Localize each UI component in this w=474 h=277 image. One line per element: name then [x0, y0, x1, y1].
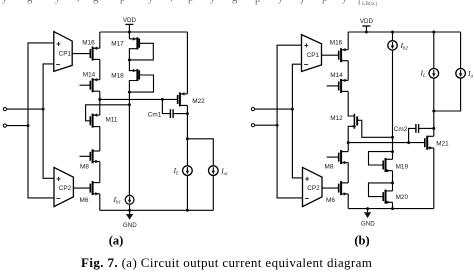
wire rail to M16b drain — [347, 32, 349, 50]
svg-text:p: p — [188, 0, 193, 4]
svg-text:p: p — [120, 0, 125, 4]
node M12 source on gate wire — [347, 141, 350, 144]
svg-text:Ib1: Ib1 — [113, 195, 121, 206]
svg-text:−: − — [304, 194, 309, 203]
node Cm2 tap — [407, 141, 410, 144]
transistor M16 — [82, 40, 100, 61]
ground symbol (b) — [361, 209, 375, 228]
node ground-M20 — [391, 207, 394, 210]
node output branch split — [186, 137, 189, 140]
transistor M14 (b) — [327, 72, 349, 93]
svg-text:M19: M19 — [396, 164, 409, 171]
transistor M20 diode-connected — [369, 183, 409, 204]
comparator CP1 — [54, 32, 72, 72]
svg-text:+: + — [56, 39, 61, 48]
transistor M17 diode-connected (mirrored) — [111, 37, 153, 60]
node rail-VDD junction — [128, 31, 131, 34]
wire input1 to CP1- and CP2+ — [43, 64, 54, 178]
VDD label (b) — [360, 18, 374, 25]
wire M6 source to ground rail — [99, 194, 101, 211]
svg-text:g: g — [27, 0, 33, 4]
wire node down to M11 drain — [99, 99, 101, 115]
svg-text:M21: M21 — [436, 141, 449, 148]
svg-text:CP1: CP1 — [307, 52, 320, 59]
wire rail to M16 drain — [99, 32, 101, 48]
wire long M21-gate wire — [348, 142, 425, 144]
transistor M19 diode-connected — [369, 152, 409, 173]
svg-text:+: + — [305, 174, 310, 183]
capacitor Cm1 — [148, 99, 188, 118]
wire M22 source down — [186, 105, 188, 165]
svg-text:y: y — [210, 0, 216, 4]
transistor M8 — [80, 149, 100, 170]
wire input2 to CP1+ and CP2- — [28, 43, 54, 198]
svg-text:p: p — [255, 0, 260, 5]
svg-text:M16: M16 — [330, 39, 343, 46]
transistor M16 (b) — [330, 39, 348, 62]
svg-text:y: y — [148, 0, 154, 4]
wire Ib2 column down to M19 stack — [392, 50, 394, 159]
node input1 junction — [42, 108, 45, 111]
transistor M12 — [330, 114, 392, 143]
svg-text:LB(sc): LB(sc) — [362, 0, 377, 7]
comparator CP2 — [54, 167, 73, 206]
input terminal 1 — [3, 108, 6, 111]
wire input1 to CP1b- and CP2b+ — [292, 64, 302, 178]
node input2 junction — [27, 124, 30, 127]
svg-text:Ia: Ia — [467, 69, 474, 80]
svg-text:M20: M20 — [396, 194, 409, 201]
svg-text:−: − — [56, 60, 61, 69]
wire M22 drain to VDD rail — [186, 32, 188, 94]
node M11 gate loop to middle column — [128, 103, 131, 106]
wire CP2 output to M6 gate — [73, 187, 90, 189]
wire M11 source to M8 drain — [99, 127, 101, 151]
wire input2 — [7, 125, 29, 127]
VDD symbol (a) — [125, 24, 133, 32]
svg-text:VDD: VDD — [123, 17, 137, 24]
svg-text:+: + — [56, 174, 61, 183]
input terminal 2 — [3, 124, 6, 127]
wire M18 drain down to Ib1 — [128, 92, 130, 195]
wire M6b source to ground rail — [347, 194, 349, 209]
svg-text:p: p — [322, 0, 327, 4]
svg-text:M18: M18 — [111, 73, 124, 80]
wire top VDD rail (b) — [348, 31, 460, 33]
wire CP1 output to M16 gate — [72, 53, 90, 55]
cut-off text line fragments at top — [2, 0, 377, 7]
wire bottom ground rail (a) — [100, 209, 214, 211]
svg-text:M6: M6 — [80, 197, 89, 204]
svg-text:CP2: CP2 — [59, 185, 72, 192]
wire M14 source down to node — [99, 91, 101, 99]
transistor M14 — [80, 72, 100, 93]
node Cm1-M22 source — [186, 112, 189, 115]
input terminal 2 (b) — [251, 124, 254, 127]
wire Ia branch (b) — [460, 32, 462, 69]
svg-text:VDD: VDD — [360, 18, 374, 25]
VDD label (a) — [123, 17, 137, 24]
node ground-IL — [186, 209, 189, 212]
svg-text:M22: M22 — [192, 98, 205, 105]
svg-text:GND: GND — [123, 222, 137, 229]
svg-text:.: . — [77, 0, 80, 4]
node Cm1 tap — [161, 98, 164, 101]
wire input1 (b) — [255, 108, 293, 110]
node Ia join — [432, 110, 435, 113]
transistor M11 diode-connected — [86, 105, 130, 128]
node M18 drain — [128, 91, 131, 94]
svg-text:M14: M14 — [83, 72, 96, 79]
wire Ib1 to ground rail — [129, 204, 131, 210]
wire M20 source to ground rail — [392, 202, 394, 208]
node ground-Ib1 — [128, 209, 131, 212]
svg-text:(b): (b) — [354, 233, 369, 247]
transistor M22 — [178, 92, 206, 106]
wire IL to M21 drain — [433, 78, 435, 136]
transistor M8 (b) — [325, 150, 349, 171]
node rail-VDD (b) — [365, 31, 368, 34]
svg-text:Cm2: Cm2 — [394, 126, 408, 133]
svg-text:M8: M8 — [80, 163, 89, 170]
svg-text:+: + — [304, 41, 309, 50]
wire top VDD rail (a) — [100, 31, 188, 33]
wire M8 source to M6 drain — [99, 162, 101, 183]
ground symbol (a) — [123, 210, 137, 229]
current source Ia (b) — [456, 69, 474, 80]
svg-text:M11: M11 — [106, 117, 118, 124]
wire input2 to CP1b+ and CP2b- — [277, 45, 302, 198]
wire rail to M17 — [128, 32, 130, 39]
input terminal 1 (b) — [251, 108, 254, 111]
svg-text:M17: M17 — [111, 41, 124, 48]
svg-text:M6: M6 — [326, 197, 335, 204]
transistor M21 — [425, 136, 449, 150]
wire IL to ground rail — [186, 175, 188, 210]
svg-text:y: y — [55, 0, 61, 4]
svg-text:y: y — [278, 0, 284, 4]
svg-text:Isc: Isc — [220, 166, 228, 177]
svg-text:Ib2: Ib2 — [400, 41, 409, 52]
comparator CP1 (b) — [302, 35, 322, 72]
node M17 drain — [128, 58, 131, 61]
wire CP2b output to M6b gate — [322, 187, 339, 189]
node input2 junction (b) — [276, 124, 279, 127]
wire M16b source to M14b drain — [347, 61, 349, 81]
node input1 junction (b) — [291, 108, 294, 111]
svg-text:−: − — [304, 60, 309, 69]
svg-text:y: y — [2, 0, 8, 4]
svg-text:M8: M8 — [325, 164, 334, 171]
svg-text:(a): (a) — [109, 233, 124, 247]
svg-text:M16: M16 — [82, 40, 95, 47]
wire Ia down to output node — [434, 78, 461, 111]
svg-text:Cm1: Cm1 — [148, 111, 162, 118]
svg-text:g: g — [93, 0, 99, 4]
VDD symbol (b) — [362, 26, 370, 32]
capacitor Cm2 — [394, 124, 434, 143]
svg-text:I: I — [358, 0, 361, 7]
wire M8b source to M6b drain — [347, 163, 349, 183]
wire column to M8b drain — [347, 143, 349, 152]
node M12 drain to Ib2 column — [391, 136, 394, 139]
svg-text:CP1: CP1 — [59, 51, 72, 58]
node rail-Ib2 — [391, 31, 394, 34]
wire M21 source to ground rail end — [433, 148, 435, 209]
svg-text:IL: IL — [173, 166, 180, 177]
wire IL branch (b) — [433, 32, 435, 69]
node rail-IL (b) — [432, 31, 435, 34]
wire bottom ground rail (b) — [348, 208, 434, 210]
svg-text:): ) — [300, 0, 304, 5]
wire input2 (b) — [255, 124, 278, 126]
svg-text:M14: M14 — [330, 72, 343, 79]
svg-text:CP2: CP2 — [307, 185, 320, 192]
svg-text:.: . — [170, 0, 173, 4]
svg-text:IL: IL — [420, 69, 427, 80]
wire CP1b output to M16b gate — [322, 54, 339, 56]
current source Ib1 — [113, 195, 135, 206]
transistor M6 — [80, 181, 100, 204]
node Cm2-M21 drain — [432, 127, 435, 130]
transistor M18 diode-connected (mirrored) — [111, 60, 153, 92]
node ground-GND stub (b) — [366, 207, 369, 210]
wire input1 — [7, 108, 44, 110]
svg-text:g: g — [232, 0, 238, 4]
svg-text:Fig. 7. (a) Circuit output cur: Fig. 7. (a) Circuit output current equiv… — [81, 255, 372, 270]
wire M19 source to M20 drain — [392, 171, 394, 191]
node M19 gate loop junction — [391, 150, 394, 153]
node M14/M11/M22-gate junction — [98, 98, 101, 101]
wire branch to Isc — [187, 139, 213, 166]
current source Isc (a) — [209, 166, 229, 177]
svg-text:M12: M12 — [330, 115, 343, 122]
current source IL (a) — [173, 166, 193, 177]
comparator CP2 (b) — [303, 167, 323, 206]
wire node to M22 gate — [100, 98, 178, 100]
wire M14b source to M12 gate — [348, 91, 354, 116]
node M20 gate loop junction — [391, 181, 394, 184]
svg-text:−: − — [56, 194, 61, 203]
svg-text:y: y — [342, 0, 348, 4]
current source Ib2 — [388, 32, 409, 52]
wire M16 source to M14 drain — [99, 59, 101, 79]
wire Isc to ground rail — [212, 175, 214, 210]
transistor M6 (b) — [326, 181, 348, 204]
svg-text:GND: GND — [361, 220, 375, 227]
current source IL (b) — [420, 69, 439, 80]
